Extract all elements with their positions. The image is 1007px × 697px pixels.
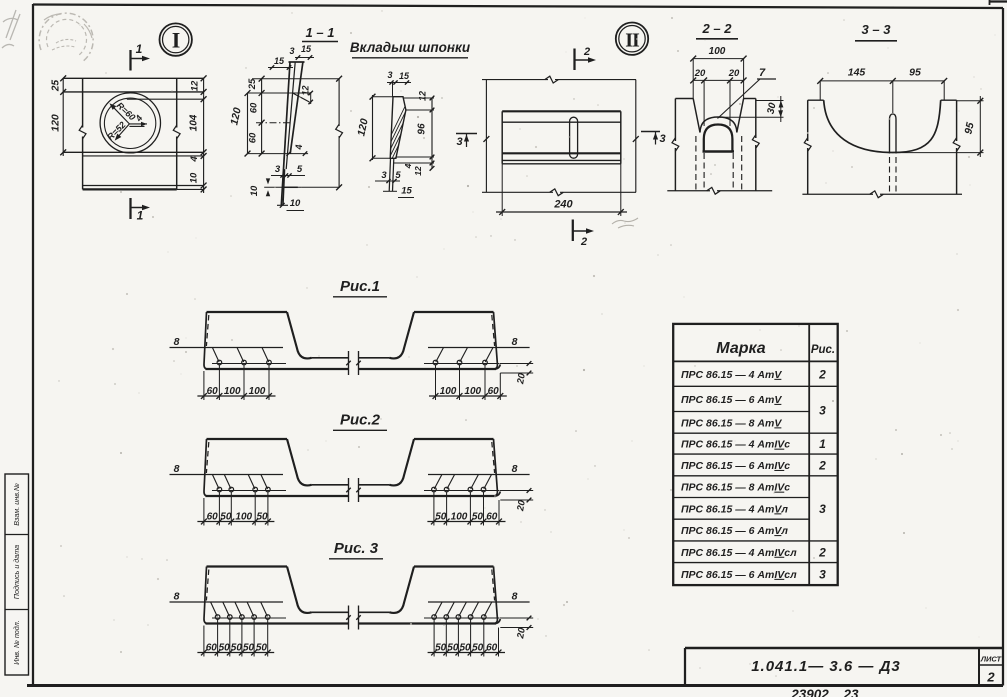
svg-text:60: 60 <box>486 512 498 523</box>
1-1 lower dimensions 3 / 5 <box>271 164 305 178</box>
svg-text:ПРС 86.15 — 6 АтVл: ПРС 86.15 — 6 АтVл <box>681 525 788 537</box>
svg-text:60: 60 <box>207 512 219 523</box>
svg-text:50: 50 <box>435 643 447 654</box>
svg-text:8: 8 <box>512 336 518 348</box>
1-1 top dimensions 15 / 3 / 15 <box>268 44 314 70</box>
svg-text:50: 50 <box>472 512 484 523</box>
3-3 dimensions 145 / 95 <box>817 67 947 114</box>
section 2-2 title <box>696 21 738 39</box>
svg-text:100: 100 <box>249 386 266 397</box>
svg-text:60: 60 <box>248 132 259 143</box>
title block bottom right <box>685 648 1003 686</box>
svg-text:12: 12 <box>190 80 201 91</box>
svg-text:50: 50 <box>220 512 232 523</box>
svg-text:60: 60 <box>249 102 260 113</box>
svg-text:3: 3 <box>381 170 387 181</box>
svg-text:145: 145 <box>848 67 866 79</box>
svg-text:ЛИСТ: ЛИСТ <box>980 655 1003 664</box>
2-2 bottom line <box>667 187 772 194</box>
svg-text:Подпись и дата: Подпись и дата <box>12 545 21 599</box>
svg-text:ПРС 86.15 — 6 АтIVс: ПРС 86.15 — 6 АтIVс <box>681 460 790 472</box>
svg-text:4: 4 <box>403 163 413 169</box>
svg-text:120: 120 <box>50 114 62 132</box>
anchor circles and leader 8 (right) <box>424 463 530 492</box>
svg-text:4: 4 <box>294 144 304 150</box>
svg-text:15: 15 <box>399 71 410 81</box>
3-3 center slot <box>890 114 897 154</box>
svg-text:50: 50 <box>256 643 268 654</box>
svg-text:50: 50 <box>256 512 268 523</box>
svg-text:1: 1 <box>137 209 144 223</box>
anchor circles and leader 8 (left) <box>170 591 287 620</box>
dimensions left row <box>197 620 274 657</box>
section mark 2 (top) <box>575 46 597 70</box>
dimensions left row <box>197 365 275 400</box>
svg-text:2 – 2: 2 – 2 <box>702 21 733 36</box>
svg-text:2: 2 <box>580 236 587 248</box>
slab break lines <box>346 351 360 375</box>
svg-text:8: 8 <box>174 591 180 603</box>
radius leader R=60 <box>109 100 137 124</box>
svg-text:2: 2 <box>818 458 826 472</box>
key slot oval <box>570 117 578 158</box>
svg-text:3 – 3: 3 – 3 <box>862 22 892 37</box>
ribbed panel outline (right half) <box>359 312 501 369</box>
svg-text:1: 1 <box>136 42 143 56</box>
dimension 20 (right end) <box>500 616 534 641</box>
dimensions right row <box>428 620 505 657</box>
svg-text:12: 12 <box>418 91 428 101</box>
radius leader R=52 <box>105 120 129 142</box>
svg-text:3: 3 <box>659 133 665 145</box>
faint pencil squiggle near plan view II <box>612 218 638 228</box>
2-2 hidden dashed lines <box>696 136 742 190</box>
svg-text:Взам. инв.№: Взам. инв.№ <box>12 483 21 526</box>
section mark 2 (bottom) <box>573 220 594 249</box>
numbers under frame <box>790 687 859 697</box>
svg-text:95: 95 <box>909 67 921 79</box>
svg-text:Рис. 3: Рис. 3 <box>334 540 379 557</box>
anchor circles and leader 8 (right) <box>424 591 530 620</box>
svg-text:7: 7 <box>759 67 766 79</box>
anchor circles and leader 8 (left) <box>170 463 287 492</box>
svg-text:240: 240 <box>553 199 573 211</box>
plan view II boundary lines <box>482 76 639 196</box>
plate 240 plan <box>502 111 621 164</box>
svg-text:23: 23 <box>842 687 859 697</box>
svg-text:60: 60 <box>488 386 500 397</box>
2-2 dimension 30 <box>718 96 784 122</box>
section 1-1 keyway profile <box>277 62 309 205</box>
svg-text:50: 50 <box>472 643 484 654</box>
key insert right dims 12 / 96 / 4 / 12 <box>394 91 434 176</box>
svg-text:50: 50 <box>243 643 255 654</box>
svg-text:Рис.1: Рис.1 <box>340 278 380 295</box>
detail mark II (double circle) <box>616 23 648 55</box>
svg-text:100: 100 <box>224 386 241 397</box>
svg-text:25: 25 <box>247 78 258 90</box>
svg-text:Вкладыш шпонки: Вкладыш шпонки <box>350 40 471 55</box>
3-3 bottom line <box>802 191 962 198</box>
svg-text:20: 20 <box>728 68 740 79</box>
3-3 dimension 95 (right) <box>896 96 984 157</box>
svg-text:4: 4 <box>189 156 200 163</box>
svg-text:Рис.: Рис. <box>811 344 835 356</box>
svg-text:10: 10 <box>290 198 301 209</box>
svg-text:25: 25 <box>51 80 62 93</box>
plan view plate 120x... with keyhole circle <box>63 78 203 189</box>
svg-text:10: 10 <box>189 172 200 183</box>
dimension 20 (right end) <box>500 361 534 386</box>
ribbed panel outline (right half) <box>359 567 501 624</box>
svg-text:I: I <box>172 28 181 53</box>
svg-text:ПРС 86.15 — 8 АтIVс: ПРС 86.15 — 8 АтIVс <box>681 482 790 494</box>
svg-text:1: 1 <box>819 437 826 451</box>
section 3-3 title <box>855 22 897 41</box>
2-2 socket walls <box>672 99 759 191</box>
title "Vkladysh shponki" <box>350 40 471 58</box>
svg-text:12: 12 <box>413 166 423 176</box>
2-2 leader 7 <box>718 67 777 119</box>
anchor circles and leader 8 (left) <box>170 336 287 365</box>
section mark 3 (right of plan view II) <box>641 132 666 146</box>
key insert hatched bar <box>378 92 477 191</box>
figure Ris.1 title <box>333 278 387 297</box>
svg-text:96: 96 <box>417 123 428 135</box>
svg-text:8: 8 <box>174 463 180 475</box>
svg-text:50: 50 <box>447 643 459 654</box>
svg-text:Рис.2: Рис.2 <box>340 412 381 429</box>
svg-text:2: 2 <box>818 545 826 559</box>
svg-text:2: 2 <box>986 670 995 685</box>
circle R=60 / R=52 <box>100 93 160 153</box>
ribbed panel outline (left half) <box>204 439 349 496</box>
mini dimension 4 <box>129 113 147 126</box>
svg-text:50: 50 <box>435 512 447 523</box>
3-3 slot hidden dashed <box>890 157 897 193</box>
svg-text:12: 12 <box>301 85 311 95</box>
svg-text:1.041.1— 3.6 — Д3: 1.041.1— 3.6 — Д3 <box>751 658 901 675</box>
svg-text:3: 3 <box>819 403 826 417</box>
svg-text:ПРС 86.15 — 4 АтVл: ПРС 86.15 — 4 АтVл <box>681 503 788 515</box>
svg-text:2: 2 <box>818 367 826 381</box>
2-2 dimension 100 <box>690 46 746 99</box>
ribbed panel outline (left half) <box>204 312 349 369</box>
left dimension line (25 / 120) <box>50 75 67 156</box>
section 1-1 title <box>302 25 338 42</box>
svg-text:ПРС 86.15 — 6 АтV: ПРС 86.15 — 6 АтV <box>681 394 782 406</box>
svg-text:1 – 1: 1 – 1 <box>306 25 335 40</box>
1-1 dimension 10 (bottom) <box>280 198 304 211</box>
svg-text:60: 60 <box>206 643 218 654</box>
svg-text:5: 5 <box>297 164 303 175</box>
svg-text:15: 15 <box>301 44 312 54</box>
svg-text:100: 100 <box>451 512 468 523</box>
svg-text:20: 20 <box>694 68 706 79</box>
svg-text:II: II <box>625 30 640 52</box>
svg-text:3: 3 <box>387 70 392 80</box>
ribbed panel outline (right half) <box>359 439 501 496</box>
svg-text:50: 50 <box>459 643 471 654</box>
marks table <box>673 324 838 585</box>
2-2 inner arch (thick) <box>704 125 733 152</box>
svg-text:3: 3 <box>275 164 281 175</box>
svg-text:ПРС 86.15 — 8 АтV: ПРС 86.15 — 8 АтV <box>681 417 782 429</box>
slab break lines <box>346 478 360 502</box>
key insert top dims 3 / 15 <box>387 70 411 97</box>
faint circular stamp top-left <box>39 13 93 62</box>
svg-text:23902: 23902 <box>790 687 829 697</box>
2-2 dimensions 20 / 20 <box>690 68 746 126</box>
right dimension line (12 / 104 / 4 / 10) <box>189 75 207 193</box>
3-3 walls <box>804 100 960 194</box>
svg-text:ПРС 86.15 — 4 АтIVс: ПРС 86.15 — 4 АтIVс <box>681 439 790 451</box>
pencil scribbles left margin <box>2 10 20 48</box>
svg-text:15: 15 <box>274 56 285 66</box>
section mark 1 (top) <box>131 42 151 71</box>
1-1 horizontal extension lines <box>248 79 340 156</box>
svg-text:8: 8 <box>512 591 518 603</box>
svg-text:50: 50 <box>231 643 243 654</box>
1-1 right boundary line with break <box>302 76 343 190</box>
2-2 socket bottom line <box>703 150 735 152</box>
svg-text:10: 10 <box>249 185 260 196</box>
dimensions right row <box>427 492 505 526</box>
dimensions left row <box>197 492 274 526</box>
svg-text:Инв. № подл.: Инв. № подл. <box>12 620 21 665</box>
svg-text:104: 104 <box>189 114 200 131</box>
svg-text:15: 15 <box>401 186 412 197</box>
svg-text:8: 8 <box>512 463 518 475</box>
dimensions right row <box>429 365 507 400</box>
figure Ris.2 title <box>333 412 387 431</box>
svg-text:ПРС 86.15 — 4 АтV: ПРС 86.15 — 4 АтV <box>681 369 782 381</box>
svg-text:100: 100 <box>464 386 481 397</box>
dimension 240 <box>496 164 627 216</box>
svg-text:Марка: Марка <box>716 340 766 357</box>
key insert bottom dims 3 / 5 / 15 <box>375 170 414 198</box>
svg-text:3: 3 <box>456 136 462 148</box>
top-right corner mark <box>989 0 1007 5</box>
anchor circles and leader 8 (right) <box>424 336 530 365</box>
ribbed panel outline (left half) <box>204 567 349 624</box>
slab break lines <box>346 606 360 630</box>
3-3 bowl curve <box>824 100 941 152</box>
detail mark I (double circle) <box>160 23 192 55</box>
svg-text:100: 100 <box>235 512 252 523</box>
svg-text:2: 2 <box>583 46 590 58</box>
svg-text:100: 100 <box>709 46 726 57</box>
1-1 left dimension lines 25/60/60 and 120 <box>228 76 264 157</box>
svg-text:3: 3 <box>289 46 294 56</box>
svg-text:50: 50 <box>219 643 231 654</box>
svg-text:3: 3 <box>819 502 826 516</box>
svg-text:ПРС 86.15 — 4 АтIVсл: ПРС 86.15 — 4 АтIVсл <box>681 547 797 559</box>
key insert dim 120 <box>355 94 393 161</box>
svg-text:8: 8 <box>174 336 180 348</box>
figure Ris.3 title <box>329 540 383 559</box>
svg-text:100: 100 <box>440 386 457 397</box>
svg-text:60: 60 <box>207 386 219 397</box>
svg-text:60: 60 <box>486 643 498 654</box>
2-2 outer arch <box>700 117 737 133</box>
1-1 dimension 10 (left) <box>249 178 302 196</box>
svg-text:ПРС 86.15 — 6 АтIVсл: ПРС 86.15 — 6 АтIVсл <box>681 569 797 581</box>
stamp column (Vzam.inv / Podpis i data / Inv.N podl.) <box>5 474 29 675</box>
svg-text:3: 3 <box>819 567 826 581</box>
section mark 3 (left of plan view II) <box>456 134 477 149</box>
section mark 1 (bottom) <box>131 198 151 223</box>
dimension 20 (right end) <box>500 488 534 513</box>
